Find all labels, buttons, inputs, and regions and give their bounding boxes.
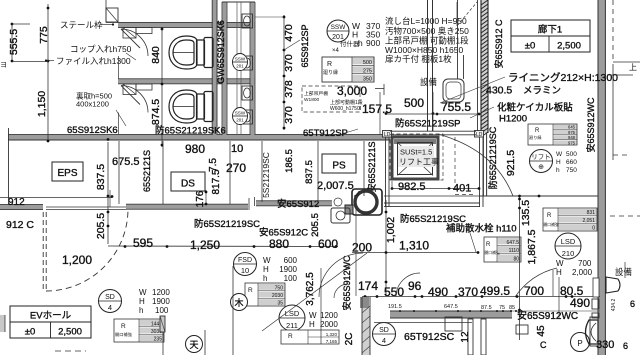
svg-text:675.5: 675.5 xyxy=(112,156,140,168)
symbol SSW201 circle xyxy=(327,20,349,42)
svg-text:975: 975 xyxy=(568,130,576,135)
label 1300 edge xyxy=(607,74,633,76)
EV door dashed leaf xyxy=(42,212,44,292)
svg-text:45: 45 xyxy=(536,325,547,337)
svg-text:1,200: 1,200 xyxy=(62,253,92,267)
svg-text:330: 330 xyxy=(596,339,614,351)
svg-text:1,002: 1,002 xyxy=(385,217,397,243)
dim line 1310 xyxy=(352,252,478,254)
svg-text:4: 4 xyxy=(108,303,112,312)
door arc bottom center xyxy=(319,253,363,297)
corridor wall right segment xyxy=(480,195,598,197)
svg-text:設備: 設備 xyxy=(420,77,438,87)
dashed upper cabinet box xyxy=(302,86,360,112)
wall vertical GW xyxy=(213,0,217,135)
svg-text:874.5: 874.5 xyxy=(150,99,162,125)
room label DS xyxy=(171,172,205,191)
svg-text:555.5: 555.5 xyxy=(8,29,20,55)
R table top xyxy=(322,57,374,82)
svg-text:500: 500 xyxy=(566,151,577,158)
svg-text:201: 201 xyxy=(236,64,244,69)
svg-text:C: C xyxy=(540,340,547,350)
svg-text:1,320: 1,320 xyxy=(326,332,338,337)
svg-text:750: 750 xyxy=(566,167,577,174)
chase fixtures xyxy=(242,14,253,28)
wall segment below hatched xyxy=(482,133,484,196)
wall plumbing chase left strip xyxy=(223,2,227,135)
svg-text:H: H xyxy=(263,265,269,274)
wall corridor top xyxy=(8,135,390,140)
svg-text:LSD: LSD xyxy=(561,237,576,246)
svg-text:W: W xyxy=(556,151,563,158)
DS shaft walls xyxy=(162,141,164,204)
svg-text:948: 948 xyxy=(568,135,576,140)
svg-text:SSW: SSW xyxy=(235,57,246,62)
svg-text:R: R xyxy=(121,323,126,330)
svg-text:W: W xyxy=(139,288,147,297)
svg-text:201: 201 xyxy=(236,118,244,123)
lift shaft label SUS t=1.5 / lift work xyxy=(398,146,434,167)
svg-text:W: W xyxy=(309,311,317,320)
svg-text:EVホール: EVホール xyxy=(30,311,72,322)
symbol lift circle xyxy=(530,150,553,173)
dim 1,002 vertical xyxy=(385,200,387,296)
svg-text:370: 370 xyxy=(283,54,295,72)
svg-text:499.5: 499.5 xyxy=(480,284,510,298)
svg-text:211: 211 xyxy=(286,321,298,330)
svg-text:755.5: 755.5 xyxy=(441,100,471,114)
tick dots small dim row xyxy=(399,310,401,312)
svg-text:防65S21219SC: 防65S21219SC xyxy=(487,126,498,189)
dim 555.5 xyxy=(11,23,13,62)
svg-text:350: 350 xyxy=(363,77,372,83)
svg-text:174: 174 xyxy=(358,279,378,293)
lift shaft dashed surround xyxy=(390,134,443,180)
svg-text:流し台L=1000 H=950: 流し台L=1000 H=950 xyxy=(385,16,467,26)
svg-text:SUSt=1.5: SUSt=1.5 xyxy=(400,148,432,157)
svg-text:R: R xyxy=(288,333,293,340)
svg-text:490: 490 xyxy=(570,296,590,310)
svg-text:2030: 2030 xyxy=(272,293,283,299)
room label EPS xyxy=(52,162,83,181)
EV door dashed arc xyxy=(46,209,128,291)
equipment tank xyxy=(443,79,464,102)
svg-text:921.5: 921.5 xyxy=(505,150,517,176)
svg-text:H: H xyxy=(309,320,315,329)
svg-text:2,051: 2,051 xyxy=(582,218,595,224)
R table wood xyxy=(245,283,285,306)
wall line x321 xyxy=(320,268,322,344)
svg-text:安65S2121S: 安65S2121S xyxy=(366,141,377,192)
svg-text:647.5: 647.5 xyxy=(506,240,519,246)
svg-text:木: 木 xyxy=(234,297,243,308)
svg-text:660: 660 xyxy=(566,159,577,166)
svg-text:65S912SK6: 65S912SK6 xyxy=(67,125,118,136)
svg-text:リフト: リフト xyxy=(531,153,551,161)
small dim lines xyxy=(396,310,600,312)
svg-text:982.5: 982.5 xyxy=(398,181,426,193)
svg-text:600: 600 xyxy=(284,256,298,265)
symbol P circle xyxy=(571,333,590,352)
svg-text:235: 235 xyxy=(154,337,163,343)
wall thin double below mop sink xyxy=(384,202,480,204)
right small marks xyxy=(558,277,560,318)
dashed line near lift xyxy=(454,137,456,188)
svg-text:SSW: SSW xyxy=(235,111,246,116)
svg-text:×4: ×4 xyxy=(332,48,340,54)
mop sink xyxy=(352,189,382,215)
svg-text:廻り縁: 廻り縁 xyxy=(529,134,542,141)
svg-text:LD: LD xyxy=(476,132,483,138)
svg-text:1900: 1900 xyxy=(279,265,297,274)
symbol FSD10 xyxy=(234,253,257,276)
svg-text:W: W xyxy=(263,256,271,265)
svg-text:R: R xyxy=(327,61,332,68)
svg-text:270: 270 xyxy=(226,161,246,175)
svg-text:設備: 設備 xyxy=(615,267,633,277)
svg-text:上部可動棚1段: 上部可動棚1段 xyxy=(330,99,363,106)
symbol SSW oval lower xyxy=(233,108,248,125)
dim 874.5 xyxy=(161,86,163,147)
svg-text:廻り縁: 廻り縁 xyxy=(323,69,338,76)
svg-text:化粧ケイカル板貼: 化粧ケイカル板貼 xyxy=(497,102,573,114)
svg-text:401: 401 xyxy=(453,183,471,195)
symbol small cross xyxy=(334,198,342,206)
left edge bottom hatch xyxy=(0,315,5,332)
svg-text:0: 0 xyxy=(592,226,595,232)
svg-text:500: 500 xyxy=(404,96,424,110)
svg-text:700: 700 xyxy=(578,259,592,268)
dim 837.5 vertical xyxy=(107,142,109,207)
svg-text:W: W xyxy=(556,259,564,268)
svg-text:R: R xyxy=(486,242,491,248)
svg-text:85: 85 xyxy=(509,305,515,311)
svg-text:防65S21219SK6: 防65S21219SK6 xyxy=(155,125,226,137)
svg-text:安65S912WC: 安65S912WC xyxy=(585,97,596,153)
dim 205.5 vertical xyxy=(107,207,109,244)
svg-text:開口補強: 開口補強 xyxy=(544,222,559,227)
dim 982.5 line lower xyxy=(391,181,393,190)
svg-text:647.5: 647.5 xyxy=(444,304,458,310)
svg-text:コップ入れh750: コップ入れh750 xyxy=(70,44,132,54)
svg-text:370: 370 xyxy=(458,285,478,299)
svg-text:10: 10 xyxy=(231,143,243,155)
R table bottom center xyxy=(281,330,339,344)
partition rects bottom xyxy=(468,319,473,355)
svg-text:12: 12 xyxy=(460,331,471,343)
svg-text:ヨ: ヨ xyxy=(0,61,7,69)
svg-text:SSW: SSW xyxy=(331,24,347,31)
svg-text:SD: SD xyxy=(105,294,115,301)
svg-text:1,150: 1,150 xyxy=(36,91,48,117)
svg-text:980: 980 xyxy=(185,142,205,156)
svg-text:h: h xyxy=(139,306,143,315)
symbol LSD210 xyxy=(555,233,581,259)
svg-text:912: 912 xyxy=(8,197,25,208)
svg-text:2000: 2000 xyxy=(320,320,338,329)
hatched door post bottom xyxy=(360,297,369,308)
svg-text:2,500: 2,500 xyxy=(58,327,82,338)
svg-text:廊下1: 廊下1 xyxy=(538,24,562,36)
svg-text:7,165: 7,165 xyxy=(326,339,338,344)
svg-text:±0: ±0 xyxy=(525,41,536,52)
misc vertical lines xyxy=(109,190,111,207)
stall partition wall 1 xyxy=(118,23,255,27)
svg-text:645: 645 xyxy=(568,125,576,130)
svg-text:H: H xyxy=(556,268,562,277)
stall door 1 arc xyxy=(121,29,148,56)
svg-text:リフト工事: リフト工事 xyxy=(399,157,439,167)
toilet 1 xyxy=(169,36,213,69)
svg-text:775: 775 xyxy=(38,26,50,44)
long vertical line xyxy=(232,266,234,355)
door arc bottom right xyxy=(515,268,557,297)
stall shelf rects xyxy=(123,28,136,39)
svg-text:157.5: 157.5 xyxy=(362,102,392,116)
wall line left of WC vertical xyxy=(355,207,357,296)
PS shaft walls xyxy=(261,141,263,202)
svg-text:912 C: 912 C xyxy=(6,219,34,231)
svg-text:880: 880 xyxy=(269,237,289,251)
symbol LSD211 xyxy=(279,305,305,331)
svg-text:R: R xyxy=(547,213,552,219)
svg-text:10: 10 xyxy=(241,266,249,275)
door arc small xyxy=(334,284,348,298)
svg-text:安65S912: 安65S912 xyxy=(277,198,319,210)
svg-text:400x1200: 400x1200 xyxy=(76,100,109,109)
door post dark xyxy=(345,205,353,214)
svg-text:扉カ千付 棚板1枚: 扉カ千付 棚板1枚 xyxy=(385,54,452,64)
svg-text:75: 75 xyxy=(499,305,505,311)
svg-text:H: H xyxy=(556,159,561,166)
R table right2 xyxy=(543,208,597,231)
svg-text:831: 831 xyxy=(587,210,596,216)
lift room side walls xyxy=(385,131,387,207)
svg-text:210: 210 xyxy=(562,249,575,258)
svg-text:ファイル入れh1300: ファイル入れh1300 xyxy=(56,56,131,66)
svg-text:1,867.5: 1,867.5 xyxy=(526,229,538,264)
svg-text:±0: ±0 xyxy=(25,327,36,338)
svg-text:GW65S912SK6: GW65S912SK6 xyxy=(216,20,226,84)
svg-text:P: P xyxy=(577,339,582,348)
svg-text:H: H xyxy=(139,297,145,306)
dim 176 vertical xyxy=(205,190,207,205)
R table right xyxy=(528,124,577,145)
room table corridor1 xyxy=(511,20,590,52)
svg-text:186.5: 186.5 xyxy=(284,149,295,173)
svg-text:ライニング212×H:1300: ライニング212×H:1300 xyxy=(508,71,618,84)
leader diagonal 3762.5 xyxy=(262,253,367,331)
svg-text:W1800: W1800 xyxy=(304,97,320,103)
svg-text:2,500: 2,500 xyxy=(557,41,581,52)
svg-text:安65S912 C: 安65S912 C xyxy=(493,19,504,69)
svg-text:⊕: ⊕ xyxy=(538,164,544,171)
svg-text:201: 201 xyxy=(332,34,344,41)
svg-text:ステール枠: ステール枠 xyxy=(60,20,103,30)
svg-text:天: 天 xyxy=(189,340,198,350)
svg-text:65T912SP: 65T912SP xyxy=(303,128,348,139)
door swing top-right diagonal xyxy=(457,2,477,26)
svg-text:1200: 1200 xyxy=(152,288,170,297)
svg-text:R: R xyxy=(535,128,540,134)
dim 135.5 vertical xyxy=(519,196,521,340)
washbasin left of mop sink xyxy=(331,208,350,223)
svg-text:470: 470 xyxy=(283,24,295,42)
svg-text:176: 176 xyxy=(195,190,206,207)
svg-text:2C: 2C xyxy=(344,333,355,346)
svg-text:防65S21219SC: 防65S21219SC xyxy=(194,218,260,230)
svg-text:防65S21219SP: 防65S21219SP xyxy=(395,118,461,130)
shelf top-left xyxy=(106,8,118,22)
right dashed lines xyxy=(612,0,614,62)
svg-text:1,310: 1,310 xyxy=(399,239,429,253)
svg-text:430.5: 430.5 xyxy=(486,85,512,97)
svg-text:6: 6 xyxy=(630,299,635,309)
R table EV xyxy=(114,319,164,342)
LD jamb right xyxy=(475,131,484,138)
dim line bottom left xyxy=(108,245,338,248)
svg-text:安65S912WC: 安65S912WC xyxy=(517,309,578,322)
svg-text:191.5: 191.5 xyxy=(388,304,402,310)
svg-text:H1200: H1200 xyxy=(499,114,527,125)
svg-text:h: h xyxy=(358,38,363,48)
equipment room walls xyxy=(427,0,429,131)
symbol SD4 second xyxy=(373,323,396,346)
svg-text:FSD: FSD xyxy=(238,257,252,264)
svg-text:900: 900 xyxy=(366,38,380,48)
wall corridor bottom right xyxy=(256,201,332,205)
svg-text:h: h xyxy=(556,167,560,174)
svg-text:2,000: 2,000 xyxy=(572,268,593,277)
svg-text:490: 490 xyxy=(428,285,448,299)
svg-text:80: 80 xyxy=(513,256,519,262)
svg-text:370: 370 xyxy=(283,106,295,124)
room table EV hall xyxy=(10,306,91,338)
svg-text:65S2121S: 65S2121S xyxy=(142,150,152,192)
wall basin right xyxy=(606,277,620,293)
svg-text:安65S912WC: 安65S912WC xyxy=(341,255,352,311)
svg-text:1110: 1110 xyxy=(509,248,520,254)
symbol ceiling circle xyxy=(186,336,203,353)
svg-text:LSD: LSD xyxy=(285,309,300,318)
door arc corridor-WC xyxy=(438,134,513,196)
svg-text:上部吊戸棚: 上部吊戸棚 xyxy=(304,90,328,97)
svg-text:600: 600 xyxy=(318,237,338,251)
svg-text:434.2: 434.2 xyxy=(611,299,617,312)
svg-text:SD: SD xyxy=(379,327,389,334)
stall front lines xyxy=(118,56,120,79)
EV door frame hatched post xyxy=(160,316,165,332)
svg-text:5S21219SC: 5S21219SC xyxy=(261,152,271,198)
lift shaft inner xyxy=(398,143,433,175)
dim chain right of chase xyxy=(283,15,285,130)
svg-text:65T912SC: 65T912SC xyxy=(404,331,455,343)
wall hatched center-right xyxy=(481,0,488,133)
wall corridor bottom left xyxy=(0,205,43,209)
svg-text:135.5: 135.5 xyxy=(520,200,532,226)
svg-text:上: 上 xyxy=(629,63,637,72)
LD jamb left xyxy=(383,131,392,138)
svg-text:700: 700 xyxy=(524,284,544,298)
left edge vertical line xyxy=(8,128,10,205)
EPS right wall line xyxy=(118,141,120,204)
urinal bottom right xyxy=(586,320,599,344)
svg-text:メラミン: メラミン xyxy=(523,86,561,97)
svg-text:DS: DS xyxy=(181,179,195,190)
svg-text:595: 595 xyxy=(133,236,153,250)
svg-text:R: R xyxy=(248,287,253,294)
symbol SD4 xyxy=(99,290,122,313)
wall right vertical main xyxy=(599,0,606,355)
stall partition wall 2 xyxy=(118,79,255,83)
svg-text:開口補強: 開口補強 xyxy=(115,331,133,338)
svg-text:3,762.5: 3,762.5 xyxy=(305,272,316,306)
svg-text:1900: 1900 xyxy=(152,297,170,306)
svg-text:378: 378 xyxy=(283,80,295,98)
bottom wall gray segment xyxy=(390,312,512,318)
svg-text:1200: 1200 xyxy=(320,311,338,320)
svg-text:2,007.5: 2,007.5 xyxy=(317,180,354,192)
svg-text:837.5: 837.5 xyxy=(304,160,315,184)
toilet 2 xyxy=(169,90,213,123)
svg-text:LD: LD xyxy=(384,132,391,138)
svg-text:65S912SP: 65S912SP xyxy=(300,24,310,67)
svg-text:840: 840 xyxy=(150,46,162,64)
svg-text:1,250: 1,250 xyxy=(190,238,220,252)
svg-text:補助散水栓 h110: 補助散水栓 h110 xyxy=(446,223,517,235)
stall door 2 arc xyxy=(121,86,148,113)
wall plumbing chase right strip xyxy=(251,2,255,135)
room label PS xyxy=(322,154,356,173)
svg-text:h: h xyxy=(263,274,267,283)
lift shaft outer wall xyxy=(392,137,438,179)
svg-text:4: 4 xyxy=(382,336,386,345)
svg-text:975: 975 xyxy=(568,140,576,145)
symbol SSW oval upper xyxy=(233,54,248,71)
svg-text:EPS: EPS xyxy=(57,168,77,179)
svg-text:205.5: 205.5 xyxy=(95,213,107,239)
svg-text:87.5: 87.5 xyxy=(481,305,492,311)
svg-text:96: 96 xyxy=(408,279,422,293)
dim line bottom main xyxy=(362,296,600,298)
dim 775 xyxy=(47,4,49,142)
svg-text:100: 100 xyxy=(284,274,298,283)
svg-text:W600_h1750I: W600_h1750I xyxy=(330,106,361,112)
svg-text:550: 550 xyxy=(384,285,404,299)
svg-text:837.5: 837.5 xyxy=(95,164,107,190)
svg-text:817.5: 817.5 xyxy=(211,169,222,194)
R table mid (sprinkler) xyxy=(484,237,521,262)
dim 840 xyxy=(161,27,163,86)
svg-text:35: 35 xyxy=(277,301,283,307)
svg-text:付什器: 付什器 xyxy=(340,39,360,48)
svg-text:6: 6 xyxy=(623,341,628,351)
wall corridor bottom mid xyxy=(126,205,248,209)
svg-text:205.5: 205.5 xyxy=(310,213,321,237)
svg-text:100: 100 xyxy=(155,306,169,315)
symbol wood circle xyxy=(231,294,248,311)
svg-text:PS: PS xyxy=(332,161,346,172)
svg-text:750: 750 xyxy=(275,285,284,291)
